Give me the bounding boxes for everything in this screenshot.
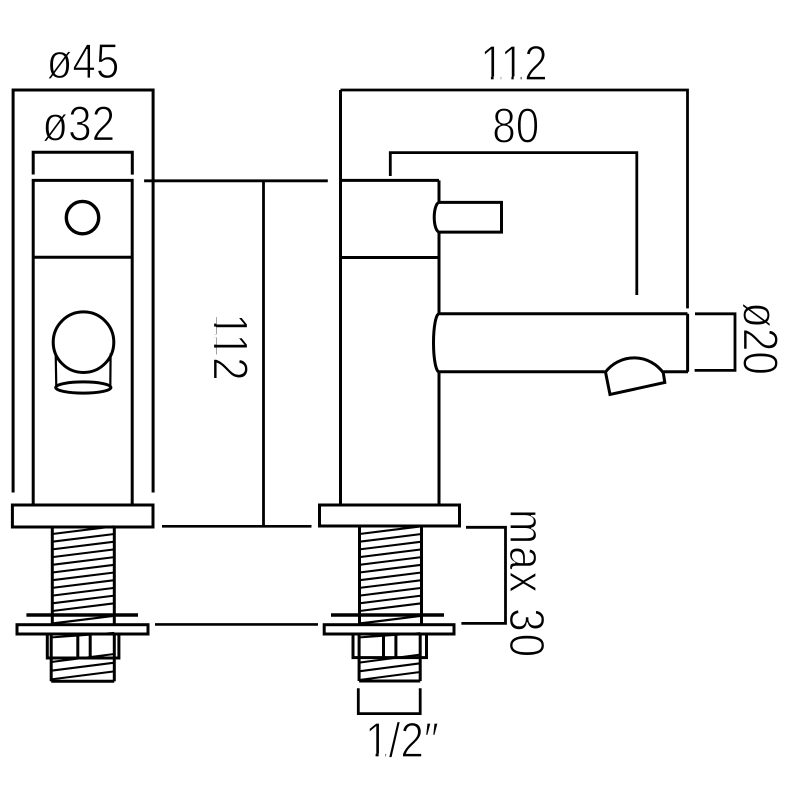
handle screw circle [66, 201, 98, 233]
aerator ellipse front view [56, 382, 111, 393]
spout tube top edge [439, 312, 688, 315]
dimension bracket ø20 [695, 314, 735, 371]
spout tube bottom edge [439, 370, 688, 373]
tail between washers side view [360, 617, 422, 626]
svg-text:ø45: ø45 [47, 34, 120, 89]
thread hatch lower front view [51, 633, 114, 680]
body division line side view [341, 256, 440, 259]
backnut facet lines front view [78, 634, 90, 658]
svg-text:1/2″: 1/2″ [365, 713, 439, 768]
aerator cylinder side lines front view [56, 354, 111, 388]
dimension bracket ø45 [13, 90, 153, 493]
dimension ticks 1/2 inch [358, 688, 420, 713]
svg-text:112: 112 [203, 313, 258, 380]
dimension bracket 80 [390, 153, 637, 295]
dimension line 112 vertical [144, 181, 328, 527]
body division line front view [33, 256, 132, 259]
svg-text:max 30: max 30 [499, 509, 554, 659]
backnut side view [353, 634, 427, 658]
thread hatch upper side view [360, 526, 422, 611]
spout tube rounded left cap [434, 314, 440, 372]
thread hatch between washers side view [360, 616, 422, 624]
tap body side view: right edge segments [438, 180, 441, 505]
svg-text:80: 80 [492, 99, 539, 154]
dimension bracket max 30 [461, 527, 505, 623]
extension line washer-top level [155, 623, 318, 626]
handle lever side view [439, 202, 502, 232]
tap body front view outline [33, 180, 132, 505]
thread hatch between washers front view [52, 616, 114, 624]
extension line flange-bottom level [162, 525, 312, 528]
tap body side view: left edge with extension up [339, 90, 342, 505]
svg-text:112: 112 [480, 36, 547, 91]
white patches removing serif feet of digit 1 (CAD font style) [213, 76, 521, 756]
threaded tail upper side view [360, 527, 422, 614]
flange front view [12, 505, 153, 527]
threaded tail lower side view [359, 634, 420, 681]
thread hatch upper front view [52, 526, 114, 611]
svg-text:ø20: ø20 [733, 302, 788, 375]
tail between washers front view [52, 617, 114, 626]
flange side view [320, 505, 460, 526]
thin washer front view [26, 613, 138, 616]
svg-text:ø32: ø32 [42, 97, 115, 152]
thick washer front view [17, 625, 148, 634]
backnut front view [47, 634, 119, 658]
aerator wedge side view [606, 358, 665, 395]
threaded tail upper front view [52, 527, 114, 614]
spout tube right end [686, 314, 689, 372]
thread hatch lower side view [359, 633, 420, 680]
threaded tail lower front view [51, 634, 114, 681]
thin washer side view [331, 613, 444, 616]
tap body side view: top edge [341, 179, 440, 182]
handle lever rounded cap [434, 202, 439, 232]
thick washer side view [324, 625, 454, 634]
spout outlet circle front view [53, 312, 114, 373]
dimension bracket 112 horizontal [341, 90, 688, 308]
backnut facet lines side view [384, 634, 396, 658]
dimension bracket ø32 [33, 152, 132, 174]
